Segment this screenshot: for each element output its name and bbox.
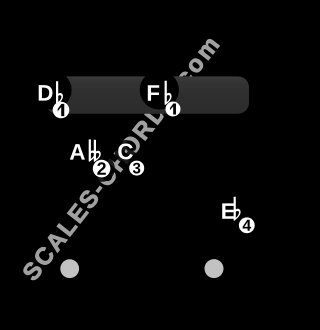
note label Abb: [70, 139, 101, 161]
watermark SCALES-CHORDS.com: [21, 35, 219, 282]
label halo (dims watermark near labels): [39, 81, 256, 234]
note label Eb: [222, 197, 240, 221]
fretboard inlay dot right: [205, 259, 224, 278]
watermark ghost on bar: [21, 35, 219, 282]
finger number 1 (Fb): [166, 102, 181, 117]
finger disc Db: [32, 70, 71, 109]
finger number 1 (Db): [53, 102, 70, 119]
note label Db: [39, 81, 63, 105]
note label C: [118, 143, 133, 159]
finger number 2 (Abb): [93, 160, 111, 178]
finger number 3 (C): [129, 161, 144, 176]
finger number 4 (Eb): [239, 217, 255, 233]
fretboard inlay dot left: [60, 259, 79, 278]
note label Fb: [148, 81, 172, 105]
finger disc Fb: [140, 70, 179, 109]
